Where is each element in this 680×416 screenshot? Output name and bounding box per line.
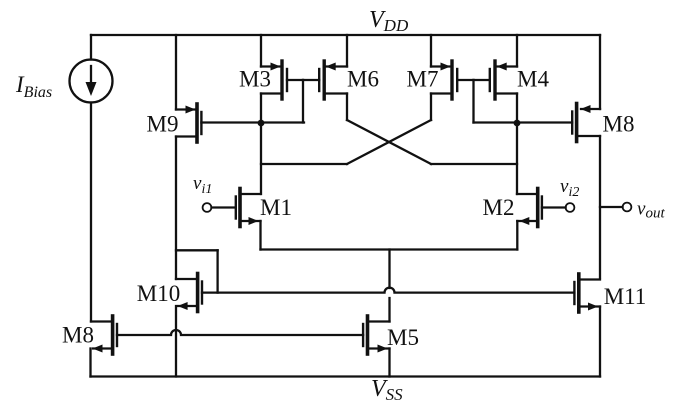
node B junction dot xyxy=(514,120,521,127)
input terminal vi1 xyxy=(203,203,212,212)
wire node B horizontal (M8 gate line) xyxy=(474,121,573,123)
wire node B vertical to M2 drain xyxy=(516,123,518,194)
svg-text:VSS: VSS xyxy=(371,376,403,404)
svg-text:vi1: vi1 xyxy=(193,173,212,197)
transistor M11 xyxy=(574,274,600,377)
svg-text:IBias: IBias xyxy=(15,72,52,101)
node A junction dot xyxy=(258,120,265,127)
wire tail (M1/M2 sources) xyxy=(261,248,518,250)
output terminal vout xyxy=(600,203,631,212)
transistor M2 xyxy=(517,189,566,250)
svg-text:M8: M8 xyxy=(603,112,635,137)
transistor M7 xyxy=(431,35,474,120)
svg-text:M9: M9 xyxy=(147,112,179,137)
wire cross-couple right horizontal xyxy=(431,163,517,165)
transistor M6 xyxy=(303,35,347,120)
transistor M8 top right xyxy=(572,35,600,278)
wire node A vertical to M1 drain xyxy=(260,123,262,194)
wire gate drop right (M7/M4 gates to node B) xyxy=(472,80,474,123)
wire M8/M5 gate line with hop over M10 source xyxy=(117,330,363,335)
transistor M5 xyxy=(363,316,389,377)
svg-text:M11: M11 xyxy=(604,284,647,309)
svg-text:M2: M2 xyxy=(483,195,515,220)
svg-text:vout: vout xyxy=(637,199,665,222)
svg-text:M6: M6 xyxy=(347,67,379,92)
wire cross-couple diagonal M6 drain to right xyxy=(347,120,431,164)
wire node A horizontal (M9 gate line) xyxy=(201,121,304,123)
wire VDD rail xyxy=(91,34,600,36)
transistor M8 bottom left xyxy=(91,316,118,377)
svg-text:M8: M8 xyxy=(62,323,94,348)
svg-text:VDD: VDD xyxy=(369,7,409,35)
wire cross-couple left horizontal xyxy=(261,163,347,165)
svg-text:M10: M10 xyxy=(137,281,180,306)
transistor M4 xyxy=(474,35,518,123)
wire cross-couple diagonal M7 drain to left xyxy=(347,120,431,164)
svg-text:M5: M5 xyxy=(387,325,419,350)
wire M10/M11 gate line with hop at tail drop xyxy=(202,288,574,293)
svg-text:M1: M1 xyxy=(260,195,292,220)
input terminal vi2 xyxy=(566,203,575,212)
svg-text:vi2: vi2 xyxy=(560,176,579,200)
transistor M1 xyxy=(212,189,261,250)
current source IBias xyxy=(70,35,113,322)
wire tail drop to M5 with hop over gate line xyxy=(388,250,390,322)
transistor M10 xyxy=(176,250,218,376)
transistor M3 xyxy=(261,35,303,123)
svg-text:M7: M7 xyxy=(407,67,439,92)
svg-text:M4: M4 xyxy=(517,67,549,92)
wire VSS rail xyxy=(91,375,601,377)
svg-text:M3: M3 xyxy=(239,67,271,92)
transistor M9 xyxy=(176,35,201,279)
wire gate drop left (M3/M6 gates to node A) xyxy=(302,80,304,123)
